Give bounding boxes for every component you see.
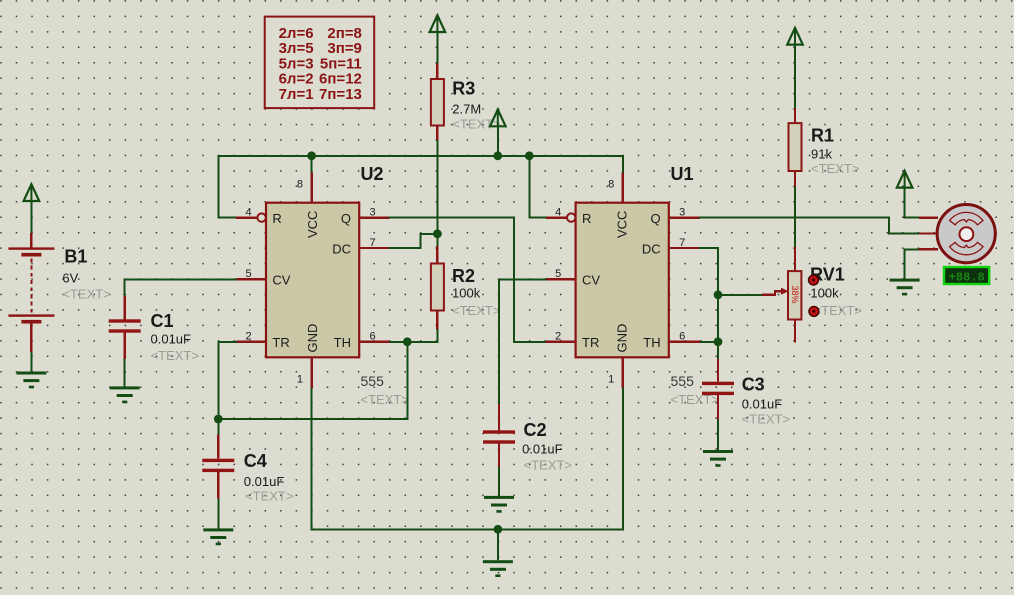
svg-text:1: 1 — [608, 374, 614, 386]
pin number 4 (U2) — [245, 206, 251, 218]
value 0.01uF (C4) — [244, 474, 285, 489]
svg-text:2: 2 — [245, 331, 251, 343]
value 100k (R2) — [452, 286, 481, 301]
label R2 — [452, 266, 475, 286]
svg-text:TH: TH — [643, 335, 660, 350]
svg-text:5: 5 — [555, 268, 561, 280]
svg-text:0.01uF: 0.01uF — [522, 442, 563, 457]
U2 pin 2 stub — [236, 341, 266, 343]
wire U1 control voltage / C2 node — [499, 279, 546, 404]
motor pin stub top — [919, 216, 938, 218]
U2 pin 6 stub — [359, 341, 389, 343]
svg-text:DC: DC — [332, 241, 351, 256]
ground (C4) — [203, 528, 233, 545]
U1 pin name DC — [642, 241, 661, 256]
power terminal above R3 — [430, 15, 446, 32]
svg-text:6V: 6V — [62, 271, 78, 286]
wire to RV1 wiper — [718, 294, 763, 296]
U1 pin name GND (rotated) — [615, 324, 630, 353]
svg-text:1: 1 — [297, 374, 303, 386]
wire battery terminal stem — [30, 200, 32, 233]
R2 bottom pin — [436, 311, 438, 331]
value 0.01uF (C2) — [522, 442, 563, 457]
svg-text:TH: TH — [334, 335, 351, 350]
svg-text:U2: U2 — [361, 164, 384, 184]
svg-text:<TEXT>: <TEXT> — [524, 458, 572, 473]
wire R3 to node A (crosses VCC bus) — [436, 140, 438, 246]
pin number 1 (U2) — [297, 374, 303, 386]
capacitor C3 — [702, 382, 734, 395]
svg-text:3: 3 — [370, 206, 376, 218]
U1 pin 5 stub — [546, 278, 576, 280]
U2 pin name GND (rotated) — [305, 324, 320, 353]
U2 pin name Q — [341, 211, 351, 226]
junction ground bus — [494, 525, 503, 534]
ground (motor) — [890, 279, 920, 296]
svg-text:Q: Q — [341, 211, 351, 226]
svg-text:8: 8 — [297, 179, 303, 191]
wire ground bus stem — [497, 529, 499, 560]
RV1 top pin — [794, 247, 796, 271]
C2 bottom pin — [498, 444, 500, 467]
ground (main) — [483, 560, 513, 577]
RV1 pin state indicator (bottom) — [809, 307, 819, 317]
svg-text:R: R — [582, 211, 591, 226]
U1 pin name TR — [582, 335, 599, 350]
R1 property text — [811, 161, 859, 176]
wire R3 terminal stem — [436, 31, 438, 64]
svg-text:C4: C4 — [244, 451, 267, 471]
svg-text:Q: Q — [650, 211, 660, 226]
C4 top pin — [217, 435, 219, 459]
svg-text:7п=13: 7п=13 — [319, 86, 362, 103]
resistor R2 — [431, 264, 444, 311]
svg-text:R1: R1 — [811, 126, 834, 146]
U2 pin 7 stub — [359, 247, 389, 249]
value 0.01uF (C1) — [151, 332, 192, 347]
svg-text:GND: GND — [615, 324, 630, 353]
U2 pin 8 stub (VCC) — [310, 173, 312, 203]
svg-text:5: 5 — [245, 268, 251, 280]
svg-text:<TEXT>: <TEXT> — [361, 392, 409, 407]
C1 top pin — [123, 296, 125, 319]
pin number 7 (U1) — [679, 237, 685, 249]
U1 property text — [671, 392, 719, 407]
motor RPM display — [944, 267, 989, 284]
C1 bottom pin — [123, 333, 125, 359]
op-amp U2 body (555 timer) — [266, 203, 359, 358]
svg-text:GND: GND — [305, 324, 320, 353]
motor pin stub bottom — [919, 248, 938, 250]
pin number 1 (U1) — [608, 374, 614, 386]
svg-text:TR: TR — [582, 335, 599, 350]
pin number 5 (U2) — [245, 268, 251, 280]
svg-text:100k: 100k — [452, 286, 481, 301]
R1 bottom pin — [794, 171, 796, 187]
label C4 — [244, 451, 267, 471]
motor pin stub middle — [919, 232, 938, 234]
U1 pin 2 stub — [546, 341, 576, 343]
wire C4 to ground — [217, 498, 219, 528]
wire U2 VCC pin to bus — [311, 156, 313, 173]
ground (C3) — [703, 450, 733, 467]
pin number 7 (U2) — [370, 237, 376, 249]
ground (battery) — [16, 372, 46, 389]
U1 pin name CV — [582, 273, 600, 288]
pin number 3 (U2) — [370, 206, 376, 218]
RV1 bottom pin (unconnected) — [794, 320, 796, 343]
svg-text:91k: 91k — [811, 147, 832, 162]
R3 top pin — [436, 64, 438, 79]
label B1 — [64, 247, 87, 267]
junction node A (R3/DC/R2) — [433, 229, 442, 238]
U2 pin 4 R bubble — [257, 213, 265, 221]
power terminal above motor — [897, 171, 913, 188]
U1 pin 8 stub (VCC) — [622, 173, 624, 203]
U1 device value 555 — [671, 373, 695, 389]
svg-text:<TEXT>: <TEXT> — [814, 303, 862, 318]
value 100k (RV1) — [810, 286, 839, 301]
ground (C2) — [484, 496, 514, 513]
svg-text:38%: 38% — [790, 286, 800, 304]
U2 pin 1 stub (GND) — [310, 357, 312, 388]
svg-text:CV: CV — [582, 273, 600, 288]
U1 pin name VCC (rotated) — [615, 211, 630, 238]
pin number 6 (U2) — [370, 331, 376, 343]
R3 bottom pin — [436, 126, 438, 141]
U1 pin 1 stub (GND) — [622, 357, 624, 388]
label C3 — [742, 375, 765, 395]
svg-text:8: 8 — [608, 179, 614, 191]
svg-text:6: 6 — [679, 331, 685, 343]
B1 property text — [62, 287, 110, 302]
svg-text:TR: TR — [272, 335, 289, 350]
svg-text:<TEXT>: <TEXT> — [151, 348, 199, 363]
U1 pin name Q — [650, 211, 660, 226]
wire U2 output Q to U1 trigger — [390, 218, 546, 342]
U1 pin name R — [582, 211, 591, 226]
text box with Cyrillic pin table — [265, 17, 375, 109]
pin number 5 (U1) — [555, 268, 561, 280]
wire C1 to ground — [124, 359, 126, 386]
R2 property text — [452, 303, 500, 318]
motor M1 body — [937, 205, 995, 263]
svg-text:6: 6 — [370, 331, 376, 343]
capacitor C4 — [202, 459, 234, 472]
U2 pin 5 stub — [236, 278, 266, 280]
svg-text:555: 555 — [671, 373, 695, 389]
svg-text:CV: CV — [272, 273, 290, 288]
wire U2 discharge to node A — [390, 234, 438, 248]
ground (C1) — [110, 386, 140, 403]
power terminal above R1 — [787, 28, 803, 45]
wire threshold loop to trigger — [218, 342, 407, 419]
U1 pin 4 stub — [546, 216, 568, 218]
junction C4 tap — [214, 415, 223, 424]
U2 pin name TH — [334, 335, 351, 350]
pin number 6 (U1) — [679, 331, 685, 343]
svg-text:R3: R3 — [452, 79, 475, 99]
power terminal (battery positive) — [24, 184, 40, 201]
op-amp U1 body (555 timer) — [576, 203, 669, 358]
U2 pin name R — [272, 211, 281, 226]
U2 device value 555 — [361, 373, 385, 389]
U2 pin name TR — [272, 335, 289, 350]
wire U1 discharge vertical — [700, 248, 718, 359]
svg-text:7: 7 — [370, 237, 376, 249]
svg-text:C1: C1 — [151, 311, 174, 331]
U2 pin name CV — [272, 273, 290, 288]
C2 property text — [524, 458, 572, 473]
svg-text:U1: U1 — [671, 164, 694, 184]
value 0.01uF (C3) — [742, 397, 783, 412]
wire motor positive terminal — [905, 187, 919, 218]
svg-text:7л=1: 7л=1 — [279, 86, 314, 103]
svg-text:2.7M: 2.7M — [452, 102, 481, 117]
C2 top pin — [498, 404, 500, 430]
pin number 4 (U1) — [555, 206, 561, 218]
U1 pin 3 stub — [669, 216, 700, 218]
wire U1 reset from bus — [529, 156, 545, 218]
svg-text:C3: C3 — [742, 375, 765, 395]
svg-text:4: 4 — [555, 206, 561, 218]
RV1 property text — [814, 303, 862, 318]
svg-text:4: 4 — [245, 206, 251, 218]
svg-text:0.01uF: 0.01uF — [742, 397, 783, 412]
wire C2 to ground — [498, 467, 500, 496]
pin number 2 (U1) — [555, 331, 561, 343]
svg-text:VCC: VCC — [615, 211, 630, 238]
svg-text:<TEXT>: <TEXT> — [245, 489, 293, 504]
value 91k (R1) — [811, 147, 832, 162]
RV1 wiper arrow — [763, 288, 789, 295]
wire C3 to ground — [717, 420, 719, 450]
pin number 8 (U1) — [608, 179, 614, 191]
U1 pin name TH — [643, 335, 660, 350]
U2 pin 4 stub — [236, 216, 258, 218]
svg-text:R: R — [272, 211, 281, 226]
svg-text:<TEXT>: <TEXT> — [811, 161, 859, 176]
junction power arrow on bus — [493, 151, 502, 160]
junction U2 VCC on bus — [307, 151, 316, 160]
U1 pin 7 stub — [669, 247, 700, 249]
resistor R1 — [789, 123, 802, 171]
RV1 pin state indicator (top) — [809, 275, 819, 285]
svg-text:100k: 100k — [810, 286, 839, 301]
U1 pin 6 stub — [669, 341, 700, 343]
C1 property text — [151, 348, 199, 363]
U2 pin name VCC (rotated) — [305, 211, 320, 238]
wire motor negative to ground — [905, 249, 919, 278]
wire U2 control voltage to C1 — [125, 279, 236, 296]
svg-text:C2: C2 — [524, 420, 547, 440]
capacitor C2 — [483, 430, 515, 443]
svg-text:555: 555 — [361, 373, 385, 389]
pin number 3 (U1) — [679, 206, 685, 218]
R3 property text — [452, 117, 500, 132]
C3 property text — [742, 412, 790, 427]
wire U1 threshold to C3 node — [700, 341, 718, 343]
U1 pin 4 R bubble — [567, 213, 575, 221]
svg-text:3: 3 — [679, 206, 685, 218]
C3 bottom pin — [717, 395, 719, 420]
label U1 — [671, 164, 694, 184]
svg-text:0.01uF: 0.01uF — [244, 474, 285, 489]
label C1 — [151, 311, 174, 331]
svg-text:R2: R2 — [452, 266, 475, 286]
label R3 — [452, 79, 475, 99]
wire R1 to RV1 (crosses output wire) — [794, 187, 796, 247]
svg-text:<TEXT>: <TEXT> — [742, 412, 790, 427]
svg-text:B1: B1 — [64, 247, 87, 267]
wire battery to ground — [30, 352, 32, 372]
wire ground bus (U2/U1 GND) — [312, 388, 623, 529]
capacitor C1 — [109, 319, 141, 332]
svg-text:7: 7 — [679, 237, 685, 249]
U2 pin name DC — [332, 241, 351, 256]
C3 top pin — [717, 359, 719, 382]
U2 property text — [361, 392, 409, 407]
label C2 — [524, 420, 547, 440]
svg-text:<TEXT>: <TEXT> — [62, 287, 110, 302]
wire VCC bus — [218, 156, 623, 218]
pin number 2 (U2) — [245, 331, 251, 343]
R2 top pin — [436, 246, 438, 264]
svg-text:2: 2 — [555, 331, 561, 343]
svg-text:+88.8: +88.8 — [949, 270, 985, 284]
power terminal on VCC bus — [490, 110, 506, 127]
junction U1 reset branch on bus — [525, 151, 534, 160]
potentiometer RV1 — [788, 271, 801, 319]
label R1 — [811, 126, 834, 146]
label RV1 — [810, 265, 845, 285]
C4 bottom pin — [217, 472, 219, 498]
value 6V — [62, 271, 78, 286]
wire R1 terminal stem — [794, 44, 796, 109]
svg-text:DC: DC — [642, 241, 661, 256]
wire R2 bottom to threshold node — [407, 330, 437, 342]
resistor R3 — [431, 79, 444, 126]
U2 pin 3 stub — [359, 216, 389, 218]
junction U2 TH node — [403, 337, 412, 346]
wire C4 tap down — [217, 419, 219, 435]
svg-text:0.01uF: 0.01uF — [151, 332, 192, 347]
value 2.7M — [452, 102, 481, 117]
label U2 — [361, 164, 384, 184]
wire power terminal stem to bus — [497, 125, 499, 156]
battery B1 — [8, 233, 54, 352]
svg-text:<TEXT>: <TEXT> — [452, 303, 500, 318]
wire U1 output to motor — [700, 218, 919, 234]
junction U1 TH node — [714, 337, 723, 346]
pin number 8 (U2) — [297, 179, 303, 191]
R1 top pin — [794, 108, 796, 123]
junction wiper tap — [714, 290, 723, 299]
svg-text:VCC: VCC — [305, 211, 320, 238]
C4 property text — [245, 489, 293, 504]
wire U2 threshold junction — [390, 341, 408, 343]
